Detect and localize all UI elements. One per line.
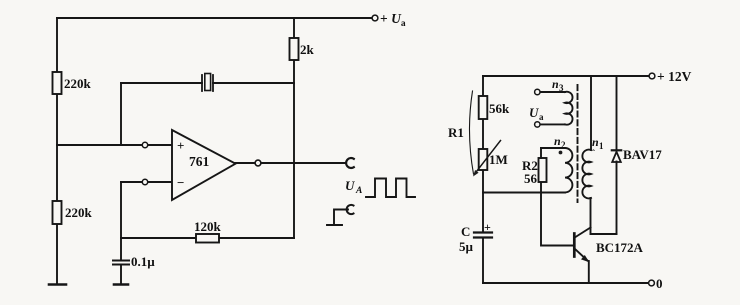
- wire top rail left circuit: [57, 17, 371, 19]
- transistor Q1 BC172A: [573, 234, 576, 257]
- svg-text:+ 12V: + 12V: [657, 69, 692, 84]
- wire R2 to n2 top: [541, 147, 565, 149]
- node polarity dot n2: [559, 151, 563, 155]
- transformer core: [577, 85, 579, 202]
- wire pullup vertical: [293, 18, 295, 38]
- wire crystal feedback vertical: [120, 83, 122, 145]
- svg-text:5µ: 5µ: [459, 239, 474, 254]
- svg-text:C: C: [461, 224, 470, 239]
- resistor R2 56: [540, 182, 542, 193]
- wire left branch vertical: [482, 76, 484, 96]
- wire inverting node vertical: [120, 182, 122, 260]
- svg-text:A: A: [355, 186, 362, 196]
- potentiometer 1M: [479, 149, 488, 170]
- wire crystal feedback horizontal: [121, 82, 202, 84]
- svg-text:+: +: [484, 220, 491, 234]
- svg-text:n: n: [552, 77, 559, 91]
- resistor R 220k upper: [53, 72, 62, 94]
- diode BAV17: [616, 76, 618, 161]
- wire noninverting input: [57, 144, 172, 146]
- resistor R 2k: [290, 38, 299, 60]
- svg-text:0.1µ: 0.1µ: [131, 254, 155, 269]
- winding n3: [565, 92, 573, 125]
- arrow of potentiometer: [477, 141, 501, 172]
- svg-text:n: n: [554, 134, 561, 148]
- wire n3 bottom terminal: [540, 123, 565, 125]
- wire base node horizontal: [483, 192, 565, 194]
- node open circle output: [255, 160, 261, 166]
- wire cap to ground: [120, 265, 122, 285]
- svg-text:1: 1: [599, 141, 604, 151]
- node +UB terminal: [372, 15, 378, 21]
- node open circle plus input: [142, 142, 147, 147]
- wire n1 to collector: [590, 198, 592, 234]
- svg-text:ˆ: ˆ: [592, 148, 595, 158]
- svg-text:2: 2: [561, 140, 566, 150]
- wire base branch: [541, 193, 573, 246]
- capacitor 0.1u: [113, 260, 129, 262]
- svg-text:761: 761: [189, 154, 210, 169]
- svg-text:+: +: [177, 138, 184, 153]
- svg-text:a: a: [539, 112, 544, 122]
- crystal Q1: [201, 75, 203, 91]
- node 0V terminal: [649, 280, 655, 286]
- step sync symbol: [327, 210, 348, 226]
- ground middle: [114, 283, 128, 286]
- svg-text:BC172A: BC172A: [596, 240, 644, 255]
- wire bottom rail right circuit: [483, 282, 648, 284]
- svg-text:2k: 2k: [300, 42, 315, 57]
- resistor R 220k lower: [53, 201, 62, 224]
- node +12V terminal: [649, 73, 655, 79]
- sync terminal socket: [347, 205, 354, 214]
- resistor R 120k: [196, 234, 219, 243]
- svg-text:56k: 56k: [489, 101, 510, 116]
- ground left: [49, 283, 66, 286]
- svg-text:1M: 1M: [489, 152, 508, 167]
- waveform square wave: [366, 179, 415, 198]
- svg-text:n: n: [592, 135, 599, 149]
- winding n1: [582, 150, 591, 199]
- wire top rail right circuit: [483, 75, 649, 77]
- wire n3 top terminal: [540, 91, 565, 93]
- wire emitter down: [588, 261, 590, 283]
- svg-text:R1: R1: [448, 125, 464, 140]
- svg-text:U: U: [345, 178, 355, 193]
- wire feedback 120k: [121, 237, 196, 239]
- svg-text:220k: 220k: [65, 205, 93, 220]
- svg-text:56: 56: [524, 171, 538, 186]
- wire n1 to rail: [590, 76, 592, 150]
- svg-text:0: 0: [656, 276, 663, 291]
- wire left vertical divider: [56, 18, 58, 72]
- wire collector to diode: [591, 233, 617, 235]
- svg-text:120k: 120k: [194, 219, 222, 234]
- svg-text:U: U: [529, 105, 539, 120]
- brace R1: [469, 91, 473, 174]
- wire output: [236, 162, 346, 164]
- svg-text:−: −: [177, 175, 184, 190]
- node open circle minus input: [142, 179, 147, 184]
- svg-text:+ Ua: + Ua: [380, 11, 406, 29]
- wire inverting input: [121, 181, 172, 183]
- resistor 56k: [479, 96, 488, 119]
- svg-text:3: 3: [559, 83, 564, 93]
- winding n2: [565, 148, 572, 192]
- op-amp U1 761: [172, 130, 236, 200]
- output terminal socket: [346, 158, 354, 168]
- svg-text:220k: 220k: [64, 76, 92, 91]
- capacitor C 5u electrolytic: [474, 231, 492, 233]
- svg-text:BAV17: BAV17: [623, 147, 662, 162]
